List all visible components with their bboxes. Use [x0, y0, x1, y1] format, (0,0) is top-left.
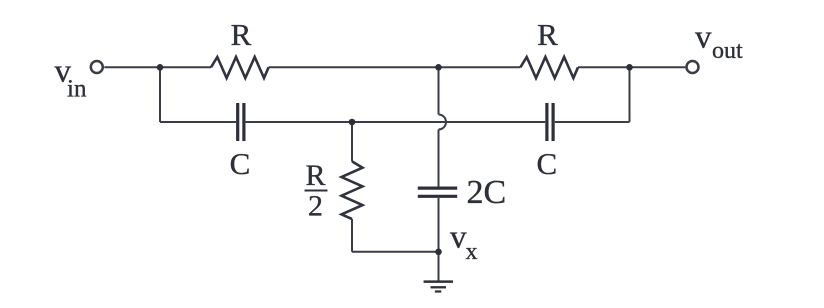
node vx junction [435, 249, 442, 256]
svg-text:R: R [231, 17, 252, 52]
wire left vertical [159, 67, 161, 122]
svg-text:2: 2 [308, 190, 323, 223]
wire center vertical upper [438, 67, 440, 114]
svg-text:R: R [537, 17, 558, 52]
wire C1 to C2 [246, 121, 546, 123]
resistor R/2 [342, 161, 363, 219]
node D: lower wire R/2 junction [349, 119, 356, 126]
svg-text:in: in [67, 76, 87, 103]
wire R2 to output terminal [578, 66, 685, 68]
resistor R2 [520, 57, 578, 78]
node B: top center junction [435, 64, 442, 71]
ground [424, 280, 453, 283]
fraction bar R/2 [305, 190, 328, 192]
terminal v_in [91, 61, 103, 73]
node A: input junction [157, 64, 164, 71]
svg-text:C: C [536, 146, 557, 181]
terminal v_out [687, 61, 699, 73]
node C: output junction [626, 64, 633, 71]
resistor R1 [211, 57, 269, 78]
svg-text:out: out [712, 38, 743, 64]
wire hop over lower wire [439, 115, 447, 130]
svg-text:v: v [695, 20, 712, 56]
svg-text:2C: 2C [467, 174, 507, 211]
wire right vertical [629, 67, 631, 122]
wire R1 to center node [269, 66, 521, 68]
capacitor C1 plates [236, 103, 239, 141]
capacitor C2 plates [545, 103, 548, 141]
wire 2C to v_x node [438, 198, 440, 252]
wire lower left to C1 [160, 121, 236, 123]
svg-text:R: R [305, 159, 325, 192]
wire R/2 top [351, 122, 353, 161]
wire input to left node [104, 66, 211, 68]
wire C2 to right vertical [555, 121, 630, 123]
wire center vertical to 2C [438, 130, 440, 187]
wire bottom horizontal [352, 251, 439, 253]
wire R/2 bottom [351, 219, 353, 252]
svg-text:C: C [230, 146, 251, 181]
svg-text:v: v [450, 220, 467, 256]
svg-text:x: x [466, 239, 478, 265]
wire ground stub [438, 252, 440, 281]
capacitor 2C plates [418, 187, 457, 190]
